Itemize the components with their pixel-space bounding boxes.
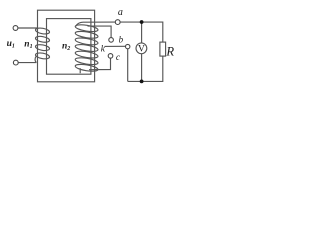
voltmeter V circle bbox=[136, 43, 147, 54]
svg-text:u1: u1 bbox=[7, 39, 15, 50]
wire top-left terminal to primary bbox=[18, 27, 37, 29]
svg-text:R: R bbox=[165, 44, 174, 58]
primary winding n1 turn 2 bbox=[35, 35, 50, 43]
input terminal bottom-left bbox=[13, 60, 18, 65]
secondary winding n2 turn 6 bbox=[75, 57, 99, 66]
primary winding n1 turn 4 bbox=[35, 52, 50, 60]
secondary winding n2 turn 3 bbox=[75, 37, 99, 46]
primary winding n1 bottom connector bbox=[35, 56, 36, 62]
secondary winding n2 turn 2 bbox=[75, 30, 99, 39]
voltmeter bottom stem bbox=[141, 54, 143, 82]
wire bottom-left terminal to primary bbox=[18, 62, 36, 64]
junction dot top bbox=[140, 20, 144, 24]
switch pole stem down to bottom rail bbox=[127, 49, 129, 82]
terminal b circle bbox=[109, 38, 114, 43]
secondary winding n2 turn 4 bbox=[75, 43, 99, 52]
secondary winding n2 turn 7 bbox=[75, 63, 99, 72]
wire secondary top partial turn to terminal a bbox=[76, 22, 115, 26]
wire terminal a to top rail and down to resistor bbox=[120, 22, 163, 42]
junction dot bottom bbox=[140, 80, 144, 84]
input terminal top-left bbox=[13, 26, 18, 31]
bottom rail bbox=[128, 56, 163, 81]
terminal a circle bbox=[115, 20, 120, 25]
secondary winding n2 turn 1 bbox=[75, 24, 99, 33]
svg-text:V: V bbox=[138, 45, 145, 55]
terminal c circle bbox=[108, 54, 113, 59]
voltmeter top stem bbox=[141, 22, 143, 43]
resistor R body bbox=[160, 42, 166, 56]
svg-text:n2: n2 bbox=[62, 41, 70, 52]
wire secondary bottom end to tap c terminal bbox=[89, 58, 111, 69]
svg-text:b: b bbox=[119, 34, 124, 44]
primary winding n1 turn 1 bbox=[35, 27, 50, 35]
primary winding n1 turn 3 bbox=[35, 44, 50, 52]
switch arm k bbox=[104, 45, 125, 47]
svg-text:n1: n1 bbox=[24, 40, 32, 51]
secondary winding bottom end tail bbox=[79, 68, 81, 73]
secondary winding n2 turn 5 bbox=[75, 50, 99, 59]
svg-text:a: a bbox=[118, 7, 123, 18]
transformer core inner rectangle bbox=[47, 19, 91, 75]
wire tap b from coil to b terminal bbox=[88, 26, 112, 38]
transformer core outer rectangle bbox=[38, 10, 95, 82]
switch pole circle bbox=[126, 44, 130, 48]
svg-text:c: c bbox=[116, 53, 121, 63]
